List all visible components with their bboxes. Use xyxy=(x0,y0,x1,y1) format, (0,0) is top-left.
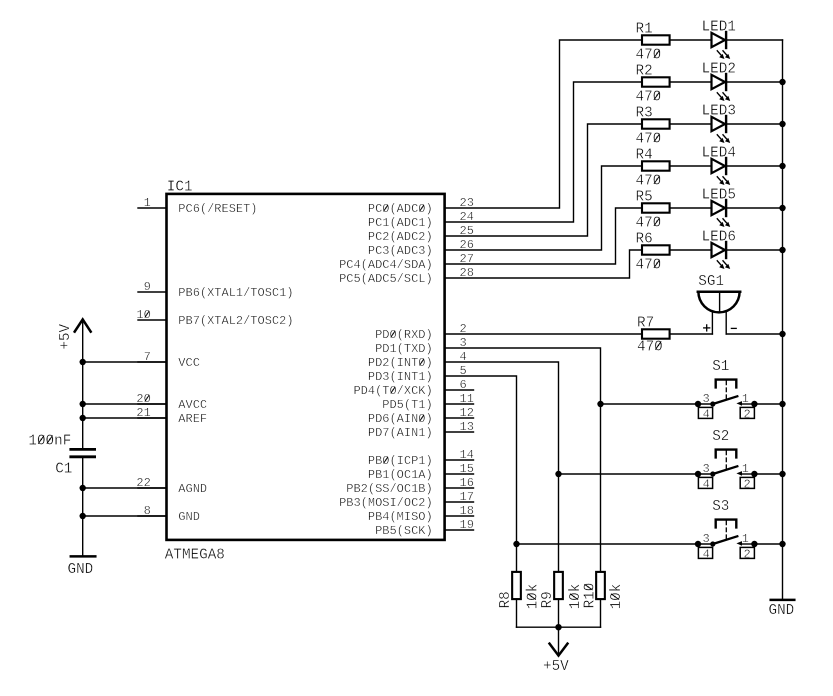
wire R10 bottom lead to +5V bus xyxy=(600,599,602,627)
IC1 pin 24 PC1(ADC1) stub, number and name xyxy=(368,210,474,230)
resistor R4 value label 470 xyxy=(636,174,662,190)
wire net from IC pin 24 to resistor R2 xyxy=(445,82,642,222)
svg-text:R4: R4 xyxy=(636,147,653,163)
svg-text:PB3(MOSI/OC2): PB3(MOSI/OC2) xyxy=(339,496,433,510)
junction on GND rail at S3 row xyxy=(779,541,785,547)
GND net label bottom right xyxy=(769,603,795,619)
LED2 light emission arrows xyxy=(717,93,730,101)
svg-text:1: 1 xyxy=(144,196,151,210)
wire R1 to LED1 xyxy=(670,39,712,41)
switch S2 pin 2 box xyxy=(740,477,754,491)
wire rail to GND pin 8 xyxy=(83,515,167,517)
resistor R9 body (vertical) xyxy=(554,572,563,599)
+5V supply symbol (arrow down) bottom xyxy=(550,627,568,655)
IC1 pin 13 PD7(AIN1) stub, number and name xyxy=(368,420,474,440)
svg-text:R2: R2 xyxy=(636,63,653,79)
svg-text:R5: R5 xyxy=(636,189,653,205)
svg-text:14: 14 xyxy=(460,448,474,462)
svg-text:PC4(ADC4/SDA): PC4(ADC4/SDA) xyxy=(339,258,433,272)
svg-text:PB1(OC1A): PB1(OC1A) xyxy=(368,468,433,482)
svg-text:PC5(ADC5/SCL): PC5(ADC5/SCL) xyxy=(339,272,433,286)
switch S3 actuator dashed link xyxy=(725,521,727,539)
svg-text:470: 470 xyxy=(636,216,662,232)
resistor R6 value label 470 xyxy=(636,258,662,274)
C1 reference label xyxy=(55,462,72,478)
IC1 pin 15 PB1(OC1A) stub, number and name xyxy=(368,462,474,482)
switch S2 actuator bracket xyxy=(716,450,737,458)
junction where pin 4 net meets switch S2 wire xyxy=(555,471,561,477)
wire junction to switch S3 pin 3 xyxy=(517,543,699,545)
switch S1 pin 3 contact wire and junction xyxy=(695,401,713,407)
wire net from IC pin 26 to resistor R4 xyxy=(445,166,642,250)
svg-text:GND: GND xyxy=(68,562,94,578)
capacitor C1 plates xyxy=(71,449,95,456)
IC1 pin 27 PC4(ADC4/SDA) stub, number and name xyxy=(339,252,474,272)
svg-text:PD1(TXD): PD1(TXD) xyxy=(375,342,433,356)
resistor R10 body (vertical) xyxy=(596,572,605,599)
IC1 pin 26 PC3(ADC3) stub, number and name xyxy=(368,238,474,258)
svg-text:1: 1 xyxy=(742,462,749,476)
svg-text:470: 470 xyxy=(637,339,663,355)
svg-text:2: 2 xyxy=(743,477,750,491)
svg-text:15: 15 xyxy=(460,462,474,476)
svg-text:PB6(XTAL1/TOSC1): PB6(XTAL1/TOSC1) xyxy=(178,286,293,300)
junction on rail at VCC xyxy=(80,359,86,365)
resistor R5 value label 470 xyxy=(636,216,662,232)
IC1 pin 5 PD3(INT1) stub, number and name xyxy=(368,364,467,384)
wire R6 to LED6 xyxy=(670,249,712,251)
switch S3 pin 3 contact wire and junction xyxy=(695,541,713,547)
junction on GND rail at LED3 row xyxy=(779,121,785,127)
resistor R5 name label xyxy=(636,189,653,205)
junction on GND rail at LED2 row xyxy=(779,79,785,85)
switch S2 name label xyxy=(712,429,729,445)
IC1 value label ATMEGA8 xyxy=(165,548,225,564)
svg-text:4: 4 xyxy=(703,547,710,561)
IC1 pin 8 GND stub, number and name xyxy=(138,504,200,524)
resistor R5 body xyxy=(642,203,670,212)
resistor R4 name label xyxy=(636,147,653,163)
ground symbol bottom right xyxy=(771,599,795,602)
wire junction to switch S1 pin 3 xyxy=(601,403,699,405)
svg-text:470: 470 xyxy=(636,132,662,148)
junction on GND rail at LED6 row xyxy=(779,247,785,253)
resistor R3 value label 470 xyxy=(636,132,662,148)
switch S1 pin 1 contact arrow xyxy=(736,401,754,406)
svg-text:PD2(INT0): PD2(INT0) xyxy=(368,356,433,370)
resistor R8 body (vertical) xyxy=(512,572,521,599)
svg-text:GND: GND xyxy=(769,603,795,619)
switch S3 lever xyxy=(710,536,737,546)
svg-text:PB0(ICP1): PB0(ICP1) xyxy=(368,454,433,468)
LED2 name label xyxy=(702,62,736,78)
svg-text:S2: S2 xyxy=(712,429,729,445)
GND net label bottom left xyxy=(68,562,94,578)
wire R8 bottom lead to +5V bus xyxy=(516,599,518,627)
svg-text:PD7(AIN1): PD7(AIN1) xyxy=(368,426,433,440)
svg-text:6: 6 xyxy=(460,378,467,392)
svg-text:11: 11 xyxy=(460,392,474,406)
switch S1 pin number 1 xyxy=(742,392,749,406)
resistor R3 name label xyxy=(636,105,653,121)
svg-text:470: 470 xyxy=(636,258,662,274)
svg-text:IC1: IC1 xyxy=(167,179,193,195)
switch S1 actuator bracket xyxy=(716,380,737,388)
svg-text:R8: R8 xyxy=(498,591,514,608)
resistor R7 value label 470 xyxy=(637,339,663,355)
IC1 pin 20 AVCC stub, number and name xyxy=(136,392,207,412)
IC1 pin 11 PD5(T1) stub, number and name xyxy=(382,392,474,412)
switch S2 pin 4 box xyxy=(698,477,712,491)
svg-text:AVCC: AVCC xyxy=(178,398,207,412)
switch S2 pin number 1 xyxy=(742,462,749,476)
switch S3 pin 1 contact arrow xyxy=(736,541,754,546)
IC1 pin 19 PB5(SCK) stub, number and name xyxy=(375,518,474,538)
resistor R1 value label 470 xyxy=(636,48,662,64)
svg-text:10: 10 xyxy=(136,308,150,322)
svg-text:C1: C1 xyxy=(55,462,72,478)
resistor R8 name label (rotated) xyxy=(498,591,514,608)
wire R4 to LED4 xyxy=(670,165,712,167)
junction on GND rail at S1 row xyxy=(779,401,785,407)
svg-text:10k: 10k xyxy=(609,584,625,610)
wire net from IC pin 5 down to S3/R8 xyxy=(445,376,517,571)
resistor R10 value label 10k (rotated) xyxy=(609,584,625,610)
svg-text:10k: 10k xyxy=(568,584,584,610)
resistor R10 name label (rotated) xyxy=(582,583,598,609)
svg-text:S1: S1 xyxy=(712,359,729,375)
svg-text:12: 12 xyxy=(460,406,474,420)
LED5 light emission arrows xyxy=(717,219,730,227)
+5V supply symbol (arrow up) top left xyxy=(75,319,91,448)
LED1 light emission arrows xyxy=(717,51,730,59)
wire rail to AREF pin 21 xyxy=(83,417,167,419)
wire junction to switch S2 pin 3 xyxy=(559,473,699,475)
LED5 diode triangle and cathode bar xyxy=(712,200,727,216)
junction on GND rail at S2 row xyxy=(779,471,785,477)
svg-text:13: 13 xyxy=(460,420,474,434)
resistor R7 body xyxy=(642,329,670,338)
SG1 plus terminal mark xyxy=(704,325,710,331)
svg-text:+5V: +5V xyxy=(543,659,569,675)
buzzer SG1 body (half disc) xyxy=(698,292,740,313)
svg-text:LED3: LED3 xyxy=(702,104,736,120)
resistor R3 body xyxy=(642,119,670,128)
IC1 pin 23 PC0(ADC0) stub, number and name xyxy=(368,196,474,216)
IC1 pin 25 PC2(ADC2) stub, number and name xyxy=(368,224,474,244)
svg-text:470: 470 xyxy=(636,174,662,190)
svg-text:18: 18 xyxy=(460,504,474,518)
svg-text:ATMEGA8: ATMEGA8 xyxy=(165,548,225,564)
switch S1 pin 4 box xyxy=(698,407,712,421)
LED6 name label xyxy=(702,230,736,246)
LED5 name label xyxy=(702,188,736,204)
wire +5V rail to VCC pin 7 xyxy=(83,361,167,363)
wire rail to AGND pin 22 xyxy=(83,487,167,489)
svg-text:2: 2 xyxy=(743,547,750,561)
wire IC pin 2 PD0 to resistor R7 xyxy=(445,333,642,335)
svg-text:PB2(SS/OC1B): PB2(SS/OC1B) xyxy=(346,482,432,496)
switch S3 pin 2 box xyxy=(740,547,754,561)
resistor R7 name label xyxy=(637,316,654,332)
resistor R8 value label 10k (rotated) xyxy=(526,584,542,610)
svg-text:100nF: 100nF xyxy=(28,433,71,449)
svg-text:PD6(AIN0): PD6(AIN0) xyxy=(368,412,433,426)
wire R5 to LED5 xyxy=(670,207,712,209)
resistor R9 value label 10k (rotated) xyxy=(568,584,584,610)
LED4 name label xyxy=(702,146,736,162)
wire LED1 cathode to right GND rail xyxy=(727,39,782,41)
SG1 name label xyxy=(698,274,724,290)
svg-text:PD4(T0/XCK): PD4(T0/XCK) xyxy=(353,384,432,398)
switch S3 pin 4 box xyxy=(698,547,712,561)
svg-text:AREF: AREF xyxy=(178,412,207,426)
svg-text:R6: R6 xyxy=(636,231,653,247)
wire LED2 cathode to right GND rail xyxy=(727,81,782,83)
svg-text:R9: R9 xyxy=(540,591,556,608)
junction on rail at GND xyxy=(80,513,86,519)
svg-text:PC1(ADC1): PC1(ADC1) xyxy=(368,216,433,230)
wire R7 to SG1 plus terminal xyxy=(670,333,713,335)
resistor R4 body xyxy=(642,161,670,170)
svg-text:3: 3 xyxy=(702,532,709,546)
resistor R1 body xyxy=(642,35,670,44)
svg-text:PC3(ADC3): PC3(ADC3) xyxy=(368,244,433,258)
svg-text:PB5(SCK): PB5(SCK) xyxy=(375,524,433,538)
IC1 pin 28 PC5(ADC5/SCL) stub, number and name xyxy=(339,266,474,286)
junction on GND rail at LED4 row xyxy=(779,163,785,169)
IC1 pin 1 PC6(/RESET) stub, number and name xyxy=(138,196,258,216)
LED6 light emission arrows xyxy=(717,261,730,269)
+5V bus under pull-up resistors xyxy=(517,626,601,628)
LED3 diode triangle and cathode bar xyxy=(712,116,727,132)
wire net from IC pin 25 to resistor R3 xyxy=(445,124,642,236)
switch S2 pin number 3 xyxy=(702,462,709,476)
svg-text:19: 19 xyxy=(460,518,474,532)
IC1 pin 2 PD0(RXD) stub, number and name xyxy=(375,322,467,342)
switch S1 pin 2 box xyxy=(740,407,754,421)
switch S1 name label xyxy=(712,359,729,375)
junction on +5V bus xyxy=(555,624,561,630)
svg-text:LED4: LED4 xyxy=(702,146,736,162)
switch S3 pin number 1 xyxy=(742,532,749,546)
junction on rail at AREF xyxy=(80,415,86,421)
svg-text:R7: R7 xyxy=(637,316,654,332)
svg-text:LED1: LED1 xyxy=(702,20,736,36)
switch S1 lever xyxy=(710,396,737,406)
svg-text:S3: S3 xyxy=(712,499,729,515)
junction where pin 3 net meets switch S1 wire xyxy=(597,401,603,407)
C1 value label 100nF xyxy=(28,433,71,449)
svg-text:SG1: SG1 xyxy=(698,274,724,290)
switch S2 pin 1 contact arrow xyxy=(736,471,754,476)
wire C1 lower plate down the GND rail xyxy=(82,458,84,555)
SG1 minus terminal mark xyxy=(731,327,736,329)
wire net from IC pin 23 to resistor R1 xyxy=(445,40,642,208)
junction on rail at AVCC xyxy=(80,401,86,407)
svg-text:PD3(INT1): PD3(INT1) xyxy=(368,370,433,384)
wire SG1 minus terminal to right GND rail xyxy=(726,333,782,335)
svg-text:PC2(ADC2): PC2(ADC2) xyxy=(368,230,433,244)
svg-text:1: 1 xyxy=(742,532,749,546)
IC1 pin 21 AREF stub, number and name xyxy=(136,406,207,426)
resistor R1 name label xyxy=(636,21,653,37)
wire R9 bottom lead to +5V bus xyxy=(558,599,560,627)
switch S3 name label xyxy=(712,499,729,515)
svg-text:470: 470 xyxy=(636,48,662,64)
svg-text:LED2: LED2 xyxy=(702,62,736,78)
svg-text:+5V: +5V xyxy=(58,323,74,349)
+5V net label bottom xyxy=(543,659,569,675)
svg-text:AGND: AGND xyxy=(178,482,207,496)
SG1 legs (pins) xyxy=(712,311,726,334)
IC1 pin 10 PB7(XTAL2/TOSC2) stub, number and name xyxy=(136,308,293,328)
svg-text:LED6: LED6 xyxy=(702,230,736,246)
resistor R9 name label (rotated) xyxy=(540,591,556,608)
IC1 reference designator label xyxy=(167,179,193,195)
IC1 pin 9 PB6(XTAL1/TOSC1) stub, number and name xyxy=(138,280,294,300)
IC1 pin 16 PB2(SS/OC1B) stub, number and name xyxy=(346,476,474,496)
+5V net label (rotated) xyxy=(58,323,74,349)
IC1 pin 7 VCC stub, number and name xyxy=(138,350,200,370)
LED1 diode triangle and cathode bar xyxy=(712,32,727,48)
IC1 pin 14 PB0(ICP1) stub, number and name xyxy=(368,448,474,468)
switch S2 lever xyxy=(710,466,737,476)
switch S2 actuator dashed link xyxy=(725,451,727,469)
ground symbol bottom left xyxy=(71,555,96,558)
svg-text:2: 2 xyxy=(743,407,750,421)
svg-text:PB4(MISO): PB4(MISO) xyxy=(368,510,433,524)
wire LED5 cathode to right GND rail xyxy=(727,207,782,209)
svg-text:4: 4 xyxy=(703,407,710,421)
IC1 pin 12 PD6(AIN0) stub, number and name xyxy=(368,406,474,426)
wire LED6 cathode to right GND rail xyxy=(727,249,782,251)
svg-text:PD5(T1): PD5(T1) xyxy=(382,398,432,412)
LED4 light emission arrows xyxy=(717,177,730,185)
wire net from IC pin 3 down to S1/R10 xyxy=(445,348,601,571)
junction on rail at AGND xyxy=(80,485,86,491)
IC1 pin 18 PB4(MISO) stub, number and name xyxy=(368,504,474,524)
LED4 diode triangle and cathode bar xyxy=(712,158,727,174)
svg-text:PC6(/RESET): PC6(/RESET) xyxy=(178,202,257,216)
svg-text:16: 16 xyxy=(460,476,474,490)
LED1 name label xyxy=(702,20,736,36)
IC1 pin 6 PD4(T0/XCK) stub, number and name xyxy=(353,378,473,398)
resistor R2 value label 470 xyxy=(636,90,662,106)
wire rail to AVCC pin 20 xyxy=(83,403,167,405)
svg-text:PD0(RXD): PD0(RXD) xyxy=(375,328,433,342)
wire net from IC pin 27 to resistor R5 xyxy=(445,208,642,264)
svg-text:R1: R1 xyxy=(636,21,653,37)
svg-text:3: 3 xyxy=(702,462,709,476)
wire LED4 cathode to right GND rail xyxy=(727,165,782,167)
junction where pin 5 net meets switch S3 wire xyxy=(513,541,519,547)
svg-text:4: 4 xyxy=(703,477,710,491)
switch S3 pin number 3 xyxy=(702,532,709,546)
junction at switch S2 pin 1/2 node xyxy=(751,471,757,477)
resistor R2 body xyxy=(642,77,670,86)
LED6 diode triangle and cathode bar xyxy=(712,242,727,258)
switch S3 actuator bracket xyxy=(716,520,737,528)
LED3 name label xyxy=(702,104,736,120)
switch S1 actuator dashed link xyxy=(725,381,727,399)
svg-text:3: 3 xyxy=(702,392,709,406)
wire net from IC pin 4 down to S2/R9 xyxy=(445,362,559,571)
svg-text:GND: GND xyxy=(178,510,200,524)
junction on GND rail at SG1 row xyxy=(779,331,785,337)
svg-text:470: 470 xyxy=(636,90,662,106)
right GND rail vertical wire xyxy=(782,40,784,599)
wire switch S3 to right GND rail xyxy=(754,543,782,545)
resistor R2 name label xyxy=(636,63,653,79)
wire R2 to LED2 xyxy=(670,81,712,83)
switch S2 pin 3 contact wire and junction xyxy=(695,471,713,477)
switch S1 pin number 3 xyxy=(702,392,709,406)
wire switch S2 to right GND rail xyxy=(754,473,782,475)
resistor R6 name label xyxy=(636,231,653,247)
svg-text:PB7(XTAL2/TOSC2): PB7(XTAL2/TOSC2) xyxy=(178,314,293,328)
junction at switch S1 pin 1/2 node xyxy=(751,401,757,407)
IC1 pin 4 PD2(INT0) stub, number and name xyxy=(368,350,467,370)
wire switch S1 to right GND rail xyxy=(754,403,782,405)
op-amp-style IC body: microcontroller IC1 ATMEGA8 xyxy=(167,194,445,540)
svg-text:VCC: VCC xyxy=(178,356,200,370)
IC1 pin 3 PD1(TXD) stub, number and name xyxy=(375,336,467,356)
svg-text:LED5: LED5 xyxy=(702,188,736,204)
LED2 diode triangle and cathode bar xyxy=(712,74,727,90)
IC1 pin 17 PB3(MOSI/OC2) stub, number and name xyxy=(339,490,474,510)
wire R3 to LED3 xyxy=(670,123,712,125)
LED3 light emission arrows xyxy=(717,135,730,143)
wire LED3 cathode to right GND rail xyxy=(727,123,782,125)
svg-text:R10: R10 xyxy=(582,583,598,609)
svg-text:R3: R3 xyxy=(636,105,653,121)
junction on GND rail at LED5 row xyxy=(779,205,785,211)
junction at switch S3 pin 1/2 node xyxy=(751,541,757,547)
svg-text:10k: 10k xyxy=(526,584,542,610)
svg-text:PC0(ADC0): PC0(ADC0) xyxy=(368,202,433,216)
wire net from IC pin 28 to resistor R6 xyxy=(445,250,642,278)
svg-text:1: 1 xyxy=(742,392,749,406)
svg-text:17: 17 xyxy=(460,490,474,504)
IC1 pin 22 AGND stub, number and name xyxy=(136,476,207,496)
svg-text:9: 9 xyxy=(144,280,151,294)
resistor R6 body xyxy=(642,245,670,254)
